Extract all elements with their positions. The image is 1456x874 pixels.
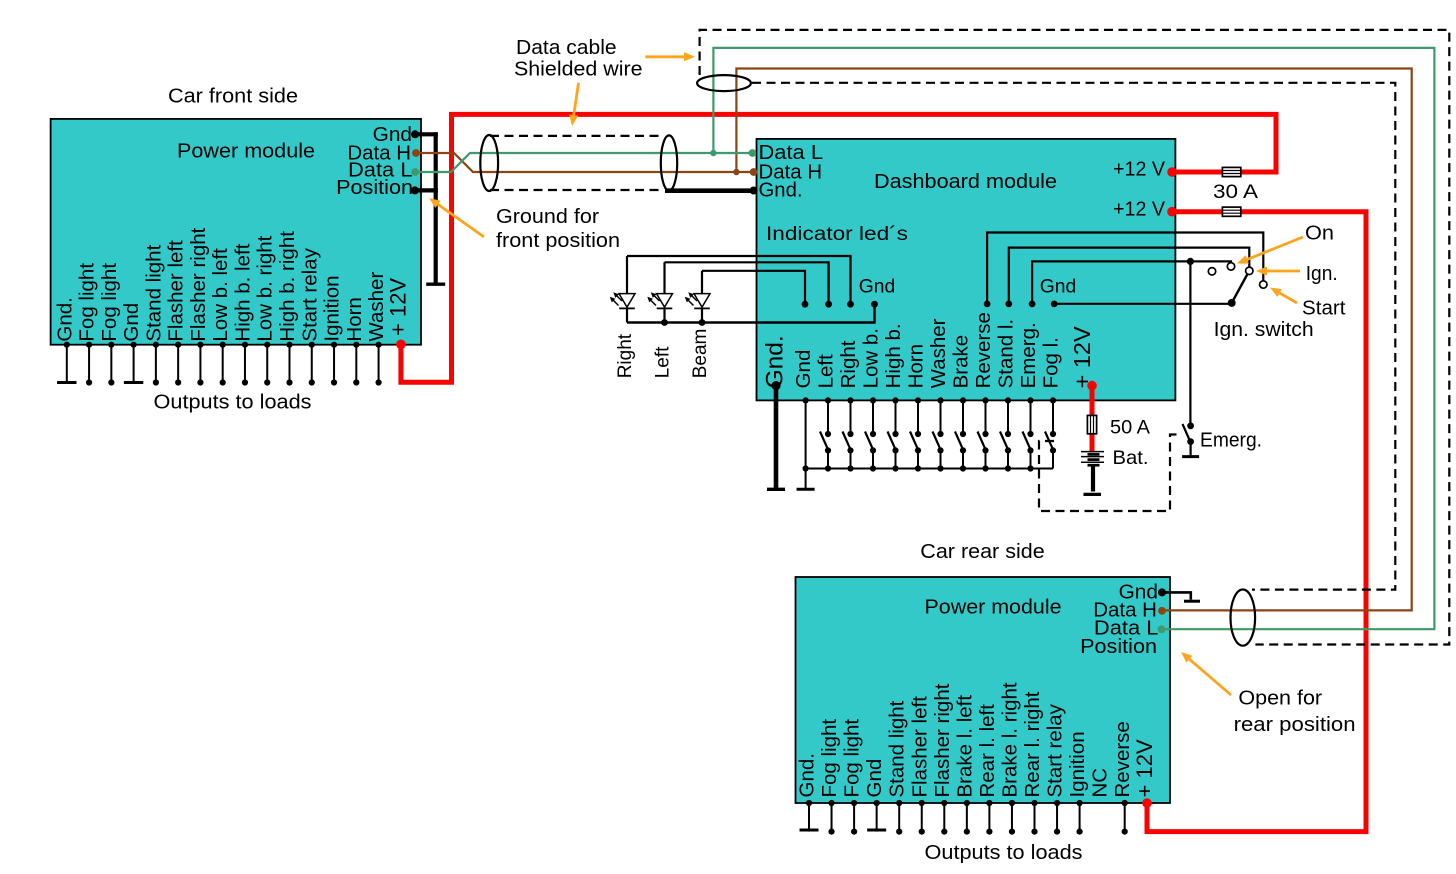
svg-text:50 A: 50 A (1110, 417, 1150, 439)
svg-text:+ 12V: + 12V (1132, 739, 1157, 797)
svg-text:+ 12V: + 12V (385, 278, 410, 336)
svg-text:Fog l.: Fog l. (1040, 337, 1063, 388)
svg-text:+12 V: +12 V (1113, 159, 1166, 181)
svg-text:Ignition: Ignition (321, 275, 344, 341)
svg-text:Position: Position (1080, 636, 1157, 658)
svg-text:Reverse: Reverse (1111, 721, 1134, 797)
svg-text:Ignition: Ignition (1066, 731, 1089, 797)
svg-text:Open for: Open for (1238, 688, 1322, 710)
svg-text:Data cable: Data cable (516, 37, 617, 59)
svg-text:Rear l. right: Rear l. right (1021, 691, 1044, 797)
svg-text:rear position: rear position (1234, 714, 1356, 736)
svg-text:Horn: Horn (343, 297, 366, 341)
svg-text:Low b.: Low b. (860, 328, 883, 388)
svg-text:On: On (1305, 223, 1334, 245)
svg-text:Flasher right: Flasher right (187, 227, 210, 341)
svg-text:Stand l.: Stand l. (995, 319, 1018, 389)
svg-text:Bat.: Bat. (1113, 447, 1149, 469)
svg-text:Flasher right: Flasher right (931, 683, 954, 797)
svg-text:Stand light: Stand light (142, 244, 165, 341)
svg-text:Brake l. left: Brake l. left (953, 695, 976, 798)
svg-text:Reverse: Reverse (972, 312, 995, 388)
svg-text:Car front side: Car front side (168, 86, 298, 108)
svg-text:Outputs to loads: Outputs to loads (925, 842, 1083, 864)
svg-text:Gnd: Gnd (863, 759, 886, 798)
svg-text:Fog light: Fog light (841, 719, 864, 798)
svg-text:Fog light: Fog light (818, 719, 841, 798)
svg-text:Emerg.: Emerg. (1017, 322, 1040, 388)
svg-text:+12 V: +12 V (1113, 198, 1166, 220)
svg-text:Power module: Power module (177, 141, 315, 163)
svg-text:Stand light: Stand light (886, 700, 909, 797)
svg-text:Gnd.: Gnd. (796, 753, 819, 797)
svg-text:Right: Right (837, 340, 860, 388)
svg-text:Low b. left: Low b. left (209, 248, 232, 342)
svg-text:Left: Left (815, 354, 838, 388)
svg-text:Gnd: Gnd (792, 350, 815, 389)
svg-text:front position: front position (496, 230, 620, 252)
svg-text:Right: Right (615, 333, 636, 378)
svg-text:Emerg.: Emerg. (1200, 430, 1262, 452)
svg-text:Fog light: Fog light (76, 263, 99, 342)
svg-text:Brake l. right: Brake l. right (998, 682, 1021, 797)
svg-text:Beam: Beam (690, 329, 711, 379)
svg-text:Low b. right: Low b. right (254, 235, 277, 341)
svg-text:Fog light: Fog light (98, 263, 121, 342)
svg-text:Indicator led´s: Indicator led´s (766, 223, 908, 245)
svg-text:Ign. switch: Ign. switch (1214, 319, 1314, 341)
svg-text:High b. right: High b. right (276, 231, 299, 342)
svg-text:High b. left: High b. left (231, 243, 254, 341)
svg-text:Gnd.: Gnd. (53, 297, 76, 341)
svg-text:Ign.: Ign. (1306, 263, 1338, 285)
svg-text:Brake: Brake (950, 335, 973, 389)
svg-text:Flasher left: Flasher left (165, 240, 188, 342)
svg-text:Left: Left (653, 346, 674, 378)
svg-text:Washer: Washer (927, 318, 950, 388)
svg-text:Outputs to loads: Outputs to loads (154, 391, 312, 413)
svg-text:Gnd: Gnd (859, 276, 896, 297)
svg-text:Ground for: Ground for (496, 206, 599, 228)
svg-text:NC: NC (1089, 768, 1112, 798)
svg-text:Shielded wire: Shielded wire (514, 59, 643, 81)
svg-text:Gnd.: Gnd. (759, 179, 803, 201)
svg-text:Start relay: Start relay (1044, 703, 1067, 797)
svg-text:Gnd: Gnd (120, 303, 143, 342)
svg-text:Position: Position (336, 177, 413, 199)
svg-text:Horn: Horn (905, 344, 928, 388)
svg-text:Gnd: Gnd (1040, 276, 1077, 297)
svg-text:Rear l. left: Rear l. left (976, 704, 999, 798)
svg-text:30 A: 30 A (1213, 181, 1258, 203)
svg-text:High b.: High b. (882, 323, 905, 388)
svg-text:Dashboard module: Dashboard module (874, 170, 1057, 193)
svg-text:Gnd.: Gnd. (761, 335, 788, 388)
svg-text:Power module: Power module (925, 597, 1062, 619)
svg-text:Flasher left: Flasher left (908, 696, 931, 798)
svg-text:+ 12V: + 12V (1069, 326, 1095, 388)
svg-text:Car rear side: Car rear side (920, 541, 1044, 563)
svg-text:Start: Start (1302, 298, 1346, 320)
svg-text:Start relay: Start relay (298, 247, 321, 341)
